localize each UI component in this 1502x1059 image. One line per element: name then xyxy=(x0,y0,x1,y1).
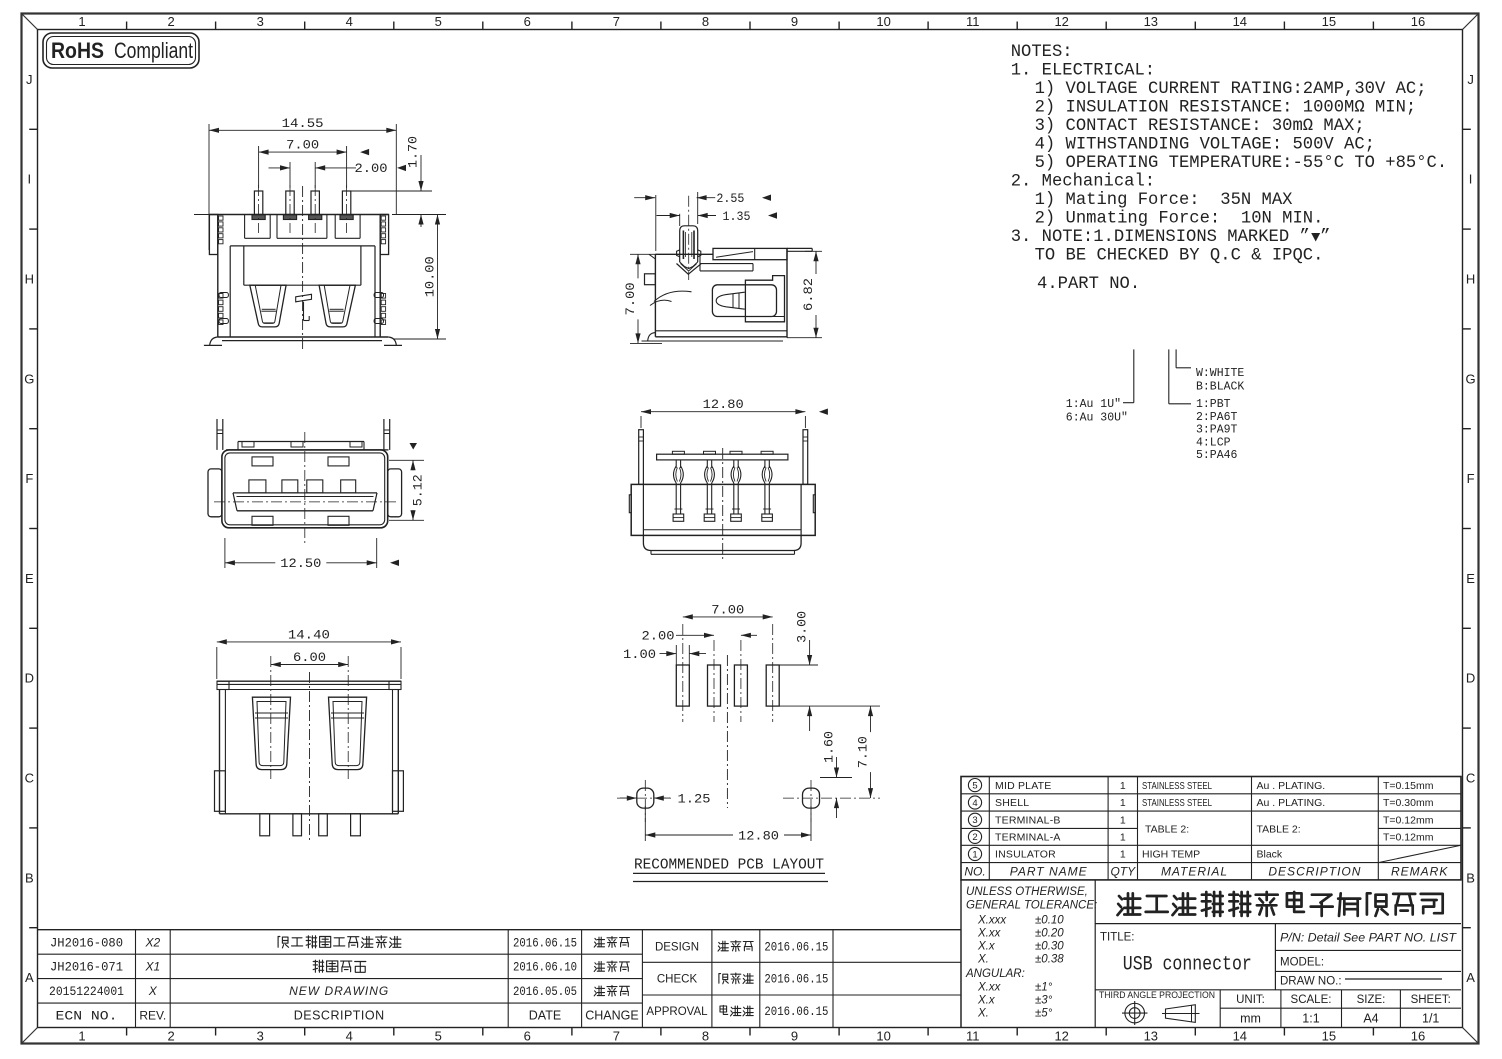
view D dimension 12.80 xyxy=(641,397,828,428)
svg-text:1: 1 xyxy=(78,14,85,29)
svg-text:4: 4 xyxy=(346,1029,353,1044)
view E side wings xyxy=(215,771,404,812)
svg-text:W:WHITE: W:WHITE xyxy=(1196,367,1244,380)
svg-text:INSULATOR: INSULATOR xyxy=(995,849,1056,861)
svg-text:Au . PLATING.: Au . PLATING. xyxy=(1257,797,1326,809)
svg-text:2016.06.15: 2016.06.15 xyxy=(764,940,828,954)
view E dimension 6.00 xyxy=(271,664,348,666)
company name Chinese text xyxy=(1118,892,1443,916)
view E bottom view shell outline xyxy=(217,681,401,814)
BOM table grid xyxy=(961,777,1461,880)
BOM description column xyxy=(1257,780,1326,861)
BOM remark column xyxy=(1378,780,1461,863)
svg-text:X.: X. xyxy=(977,1008,989,1020)
svg-text:P/N: Detail See PART NO. LIST: P/N: Detail See PART NO. LIST xyxy=(1280,933,1457,945)
svg-text:UNIT:: UNIT: xyxy=(1236,994,1265,1006)
svg-text:1.60: 1.60 xyxy=(822,731,837,763)
material legend text xyxy=(1196,398,1238,462)
svg-text:1) VOLTAGE CURRENT RATING:2AMP: 1) VOLTAGE CURRENT RATING:2AMP,30V AC; xyxy=(1035,80,1427,99)
svg-text:ANGULAR:: ANGULAR: xyxy=(965,968,1025,980)
svg-text:DESIGN: DESIGN xyxy=(655,941,699,953)
svg-text:12.50: 12.50 xyxy=(280,556,321,571)
svg-text:7: 7 xyxy=(613,14,620,29)
svg-text:TO BE CHECKED BY Q.C & IPQC.: TO BE CHECKED BY Q.C & IPQC. xyxy=(1035,247,1324,266)
svg-text:1: 1 xyxy=(972,849,977,860)
svg-text:1: 1 xyxy=(1120,832,1126,844)
svg-text:SCALE:: SCALE: xyxy=(1291,994,1332,1006)
PCB dimension 3.00 xyxy=(779,611,880,731)
svg-text:DESCRIPTION: DESCRIPTION xyxy=(294,1009,385,1023)
svg-text:QTY: QTY xyxy=(1110,865,1136,879)
svg-text:G: G xyxy=(24,371,34,386)
svg-text:8: 8 xyxy=(702,1029,709,1044)
svg-text:6.82: 6.82 xyxy=(801,278,816,311)
PCB dimension 7.00 xyxy=(683,616,773,618)
BOM part name column xyxy=(995,780,1061,861)
svg-text:A4: A4 xyxy=(1363,1012,1378,1026)
svg-text:11: 11 xyxy=(966,1029,980,1044)
svg-text:3) CONTACT RESISTANCE: 30mΩ MA: 3) CONTACT RESISTANCE: 30mΩ MAX; xyxy=(1035,117,1365,136)
svg-text:JH2016-080: JH2016-080 xyxy=(50,936,123,950)
svg-text:±0.20: ±0.20 xyxy=(1035,928,1064,940)
svg-text:B:BLACK: B:BLACK xyxy=(1196,381,1244,394)
svg-text:14: 14 xyxy=(1233,1029,1247,1044)
view C dimension 5.12 xyxy=(389,460,426,520)
svg-text:1: 1 xyxy=(78,1029,85,1044)
svg-text:3: 3 xyxy=(972,815,977,826)
svg-text:7.00: 7.00 xyxy=(711,602,744,617)
view A dimension 1.70 xyxy=(350,136,446,227)
svg-text:G: G xyxy=(1466,371,1476,386)
BOM qty column xyxy=(1120,780,1126,861)
svg-text:12: 12 xyxy=(1054,1029,1068,1044)
svg-text:2. Mechanical:: 2. Mechanical: xyxy=(1011,173,1155,192)
view A vertical centerline xyxy=(302,186,304,352)
svg-text:2016.06.15: 2016.06.15 xyxy=(764,1005,828,1019)
svg-text:T=0.15mm: T=0.15mm xyxy=(1383,780,1434,792)
view E contact shoes xyxy=(252,697,366,769)
svg-text:Black: Black xyxy=(1257,849,1283,861)
svg-text:3.00: 3.00 xyxy=(795,611,810,643)
svg-text:ECN NO.: ECN NO. xyxy=(56,1010,118,1024)
svg-text:A: A xyxy=(1466,970,1475,985)
view C tongue xyxy=(233,493,377,511)
svg-text:X.x: X.x xyxy=(977,941,996,953)
svg-text:F: F xyxy=(1467,471,1475,486)
svg-text:±0.10: ±0.10 xyxy=(1035,915,1064,927)
svg-text:6.00: 6.00 xyxy=(293,650,326,665)
svg-text:6:Au 30U": 6:Au 30U" xyxy=(1066,412,1128,425)
view A shell seam serrations xyxy=(219,216,386,325)
svg-text:C: C xyxy=(25,771,34,786)
svg-text:±0.38: ±0.38 xyxy=(1035,954,1064,966)
svg-text:4: 4 xyxy=(972,798,977,809)
svg-text:T=0.12mm: T=0.12mm xyxy=(1383,815,1434,827)
PCB dimension 1.25 xyxy=(620,792,711,807)
svg-text:20151224001: 20151224001 xyxy=(49,985,124,999)
svg-text:REV.: REV. xyxy=(139,1009,166,1023)
svg-text:X.: X. xyxy=(977,954,989,966)
svg-text:10: 10 xyxy=(876,14,890,29)
plating legend text xyxy=(1066,398,1128,425)
approval block text xyxy=(646,940,828,1019)
view B solder pin with barbs xyxy=(677,196,702,280)
view D top view body outline xyxy=(629,484,815,554)
svg-text:3: 3 xyxy=(257,1029,264,1044)
view B dimension 7.00 xyxy=(623,254,662,343)
svg-text:JH2016-071: JH2016-071 xyxy=(50,961,123,975)
svg-text:H: H xyxy=(1466,272,1475,287)
svg-text:J: J xyxy=(26,72,33,87)
view A bottom base xyxy=(204,337,402,345)
svg-text:11: 11 xyxy=(966,14,980,29)
view B dimension 1.35 xyxy=(657,209,778,226)
view C dimension 12.50 xyxy=(225,538,399,571)
svg-text:RECOMMENDED PCB LAYOUT: RECOMMENDED PCB LAYOUT xyxy=(634,858,824,874)
svg-text:X.xxx: X.xxx xyxy=(977,915,1007,927)
svg-text:12: 12 xyxy=(1054,14,1068,29)
svg-text:2016.06.10: 2016.06.10 xyxy=(513,961,577,975)
view A upper pin windows xyxy=(230,215,375,286)
svg-text:CHANGE: CHANGE xyxy=(585,1009,638,1023)
svg-text:1) Mating Force: 35N MAX: 1) Mating Force: 35N MAX xyxy=(1035,191,1294,210)
svg-text:TERMINAL-A: TERMINAL-A xyxy=(995,832,1061,844)
svg-text:13: 13 xyxy=(1144,1029,1158,1044)
svg-text:H: H xyxy=(25,272,34,287)
svg-text:APPROVAL: APPROVAL xyxy=(646,1006,708,1018)
BOM material column xyxy=(1142,780,1212,861)
svg-text:5) OPERATING TEMPERATURE:-55°C: 5) OPERATING TEMPERATURE:-55°C TO +85°C. xyxy=(1035,154,1448,173)
svg-text:4.PART NO.: 4.PART NO. xyxy=(1037,275,1140,294)
svg-text:CHECK: CHECK xyxy=(657,974,698,986)
svg-text:T=0.12mm: T=0.12mm xyxy=(1383,832,1434,844)
svg-text:7.00: 7.00 xyxy=(623,282,638,315)
svg-text:10.00: 10.00 xyxy=(423,256,438,297)
PCB layout caption xyxy=(633,858,828,882)
view E solder legs xyxy=(260,814,361,836)
PCB dimension 1.60 xyxy=(820,731,852,818)
view A rear view shell outline xyxy=(194,215,389,338)
svg-text:2:PA6T: 2:PA6T xyxy=(1196,411,1238,424)
svg-text:5:PA46: 5:PA46 xyxy=(1196,449,1238,462)
part number legend callout lines xyxy=(1123,349,1191,403)
svg-text:5: 5 xyxy=(972,781,977,792)
view B base xyxy=(642,331,788,341)
svg-text:1: 1 xyxy=(1120,815,1126,827)
view D centerline xyxy=(722,448,724,560)
svg-text:MID PLATE: MID PLATE xyxy=(995,780,1051,792)
view A center keying tab xyxy=(296,294,312,320)
svg-text:E: E xyxy=(1466,571,1475,586)
PCB dimension 7.10 xyxy=(856,706,874,798)
svg-text:±3°: ±3° xyxy=(1035,995,1053,1007)
view A dimension 14.55 xyxy=(209,116,396,250)
view B insulator block xyxy=(745,276,784,322)
revision table rows text xyxy=(49,935,639,1023)
svg-text:2016.06.15: 2016.06.15 xyxy=(764,973,828,987)
svg-text:3. NOTE:1.DIMENSIONS MARKED ”: 3. NOTE:1.DIMENSIONS MARKED ” ” xyxy=(1011,228,1331,247)
svg-text:5: 5 xyxy=(435,1029,442,1044)
svg-text:14.40: 14.40 xyxy=(288,627,330,642)
svg-text:NOTES:: NOTES: xyxy=(1011,43,1073,62)
svg-text:TABLE 2:: TABLE 2: xyxy=(1257,823,1301,835)
svg-text:SHEET:: SHEET: xyxy=(1411,994,1451,1006)
svg-text:4) WITHSTANDING VOLTAGE: 500V: 4) WITHSTANDING VOLTAGE: 500V AC; xyxy=(1035,136,1375,155)
svg-text:14: 14 xyxy=(1233,14,1247,29)
view D mounting legs xyxy=(639,430,808,485)
svg-text:2: 2 xyxy=(167,14,174,29)
revision table grid xyxy=(38,930,962,1028)
svg-text:Compliant: Compliant xyxy=(114,38,193,63)
svg-text:9: 9 xyxy=(791,14,798,29)
svg-text:STAINLESS STEEL: STAINLESS STEEL xyxy=(1142,797,1212,809)
svg-text:1: 1 xyxy=(1120,780,1126,792)
view A dimension 7.00 xyxy=(259,138,370,188)
svg-text:D: D xyxy=(25,671,34,686)
svg-text:4:LCP: 4:LCP xyxy=(1196,436,1231,449)
svg-text:THIRD ANGLE PROJECTION: THIRD ANGLE PROJECTION xyxy=(1099,990,1215,1001)
view A terminal pins xyxy=(252,185,353,233)
unit scale size sheet cells xyxy=(1236,994,1451,1026)
svg-text:±1°: ±1° xyxy=(1035,982,1053,994)
svg-text:E: E xyxy=(25,571,34,586)
svg-text:1:Au 1U": 1:Au 1U" xyxy=(1066,398,1121,411)
svg-text:2.00: 2.00 xyxy=(642,629,675,644)
svg-text:I: I xyxy=(1469,172,1473,187)
svg-text:5.12: 5.12 xyxy=(411,474,426,506)
view C side wings xyxy=(208,469,402,517)
view D terminals xyxy=(673,460,772,521)
svg-text:UNLESS OTHERWISE,: UNLESS OTHERWISE, xyxy=(966,886,1088,898)
svg-text:2) Unmating Force: 10N MIN.: 2) Unmating Force: 10N MIN. xyxy=(1035,210,1324,229)
svg-text:3:PA9T: 3:PA9T xyxy=(1196,424,1238,437)
svg-text:TITLE:: TITLE: xyxy=(1100,932,1135,944)
view B latch spring xyxy=(650,291,692,305)
svg-text:mm: mm xyxy=(1240,1012,1261,1026)
svg-text:13: 13 xyxy=(1144,14,1158,29)
svg-text:1: 1 xyxy=(1120,797,1126,809)
svg-text:14.55: 14.55 xyxy=(282,116,324,131)
svg-text:12.80: 12.80 xyxy=(703,397,744,412)
svg-text:10: 10 xyxy=(876,1029,890,1044)
part number cell xyxy=(1280,933,1457,988)
svg-text:5: 5 xyxy=(435,14,442,29)
svg-text:MATERIAL: MATERIAL xyxy=(1161,865,1228,879)
svg-text:1:PBT: 1:PBT xyxy=(1196,398,1231,411)
svg-text:TERMINAL-B: TERMINAL-B xyxy=(995,815,1061,827)
svg-text:SHELL: SHELL xyxy=(995,797,1029,809)
svg-text:2016.06.15: 2016.06.15 xyxy=(513,936,577,950)
svg-text:RoHS: RoHS xyxy=(51,38,104,63)
svg-text:±0.30: ±0.30 xyxy=(1035,941,1064,953)
PCB dimension 12.80 xyxy=(645,806,811,844)
view A contact shoes xyxy=(250,285,356,327)
svg-text:TABLE 2:: TABLE 2: xyxy=(1145,823,1189,835)
svg-text:2016.05.05: 2016.05.05 xyxy=(513,985,577,999)
svg-text:1. ELECTRICAL:: 1. ELECTRICAL: xyxy=(1011,62,1155,81)
svg-text:2) INSULATION RESISTANCE: 1000: 2) INSULATION RESISTANCE: 1000MΩ MIN; xyxy=(1035,99,1417,118)
svg-text:SIZE:: SIZE: xyxy=(1357,994,1386,1006)
view A dimension 10.00 xyxy=(394,215,446,340)
svg-text:F: F xyxy=(25,471,33,486)
svg-text:B: B xyxy=(1466,870,1475,885)
PCB layout mounting holes xyxy=(617,780,880,822)
svg-text:USB connector: USB connector xyxy=(1123,954,1252,977)
frame column numbers bottom xyxy=(78,1029,1425,1044)
svg-text:X2: X2 xyxy=(144,935,160,949)
svg-text:GENERAL TOLERANCE:: GENERAL TOLERANCE: xyxy=(966,900,1097,912)
view C front view mounting legs xyxy=(217,419,390,450)
svg-text:8: 8 xyxy=(702,14,709,29)
svg-text:T=0.30mm: T=0.30mm xyxy=(1383,797,1434,809)
PCB layout center line xyxy=(726,655,728,808)
notes text block xyxy=(1011,43,1447,294)
svg-text:2.00: 2.00 xyxy=(355,161,388,176)
svg-text:3: 3 xyxy=(257,14,264,29)
svg-text:15: 15 xyxy=(1322,1029,1336,1044)
svg-text:9: 9 xyxy=(791,1029,798,1044)
svg-text:DATE: DATE xyxy=(529,1009,561,1023)
svg-text:HIGH TEMP: HIGH TEMP xyxy=(1142,849,1200,861)
svg-text:2: 2 xyxy=(972,832,977,843)
view E dimension 14.40 xyxy=(217,627,401,679)
svg-text:16: 16 xyxy=(1411,14,1425,29)
svg-text:1.35: 1.35 xyxy=(723,209,751,224)
svg-text:±5°: ±5° xyxy=(1035,1008,1053,1020)
PCB dimension 2.00 xyxy=(642,629,758,644)
view C centerlines xyxy=(214,432,396,545)
svg-text:J: J xyxy=(1467,72,1474,87)
BOM header row xyxy=(964,865,1448,879)
PCB layout solder pads xyxy=(676,624,779,722)
svg-text:1.25: 1.25 xyxy=(678,792,711,807)
view B side view body outline xyxy=(645,248,813,337)
svg-text:REMARK: REMARK xyxy=(1391,865,1448,879)
BOM item number circles xyxy=(968,779,981,861)
svg-text:PART NAME: PART NAME xyxy=(1010,865,1088,879)
svg-text:12.80: 12.80 xyxy=(738,829,779,844)
view B dimension 6.82 xyxy=(787,251,822,337)
view C contact slots xyxy=(249,480,356,493)
title block grid xyxy=(961,880,1461,1028)
svg-text:2: 2 xyxy=(167,1029,174,1044)
svg-text:B: B xyxy=(25,870,34,885)
svg-text:STAINLESS STEEL: STAINLESS STEEL xyxy=(1142,780,1212,792)
svg-text:4: 4 xyxy=(346,14,353,29)
svg-text:D: D xyxy=(1466,671,1475,686)
frame column numbers top xyxy=(78,14,1425,29)
color legend text xyxy=(1196,367,1244,394)
svg-text:7: 7 xyxy=(613,1029,620,1044)
svg-text:1.70: 1.70 xyxy=(406,136,421,168)
svg-text:6: 6 xyxy=(524,1029,531,1044)
view B inner housing xyxy=(712,285,776,317)
svg-text:Au . PLATING.: Au . PLATING. xyxy=(1257,780,1326,792)
view E centerlines xyxy=(271,656,348,842)
svg-text:X.x: X.x xyxy=(977,995,996,1007)
svg-text:NO.: NO. xyxy=(964,865,985,879)
svg-text:1.00: 1.00 xyxy=(623,647,656,662)
view C shell outline xyxy=(222,450,388,528)
svg-text:7.00: 7.00 xyxy=(286,138,319,153)
svg-text:7.10: 7.10 xyxy=(856,736,871,768)
svg-text:X.xx: X.xx xyxy=(977,928,1002,940)
svg-text:X1: X1 xyxy=(144,960,160,974)
svg-text:X.xx: X.xx xyxy=(977,982,1002,994)
view D rear comb band xyxy=(657,451,788,460)
svg-text:6: 6 xyxy=(524,14,531,29)
svg-text:1:1: 1:1 xyxy=(1302,1012,1319,1026)
svg-text:I: I xyxy=(27,172,31,187)
svg-text:1: 1 xyxy=(1120,849,1126,861)
third angle projection cell xyxy=(1099,990,1215,1025)
svg-text:15: 15 xyxy=(1322,14,1336,29)
view C top plate xyxy=(226,442,389,450)
svg-text:A: A xyxy=(25,970,34,985)
svg-text:NEW DRAWING: NEW DRAWING xyxy=(289,984,389,998)
RoHS Compliant label box xyxy=(43,33,199,68)
title cell xyxy=(1100,932,1252,977)
svg-text:16: 16 xyxy=(1411,1029,1425,1044)
view C checked mark triangle xyxy=(410,443,418,450)
svg-text:2.55: 2.55 xyxy=(716,191,744,206)
svg-text:X: X xyxy=(148,984,158,998)
PCB dimension 1.00 xyxy=(623,645,706,666)
svg-text:DESCRIPTION: DESCRIPTION xyxy=(1268,865,1361,879)
svg-text:MODEL:: MODEL: xyxy=(1280,957,1324,969)
view A dimension 2.00 xyxy=(269,161,407,188)
svg-text:1/1: 1/1 xyxy=(1422,1012,1439,1026)
svg-text:DRAW NO.:: DRAW NO.: xyxy=(1280,976,1342,988)
view C latch cutouts xyxy=(252,457,349,525)
svg-text:C: C xyxy=(1466,771,1475,786)
general tolerance box text xyxy=(965,886,1097,1020)
view B dimension 2.55 xyxy=(634,191,771,251)
